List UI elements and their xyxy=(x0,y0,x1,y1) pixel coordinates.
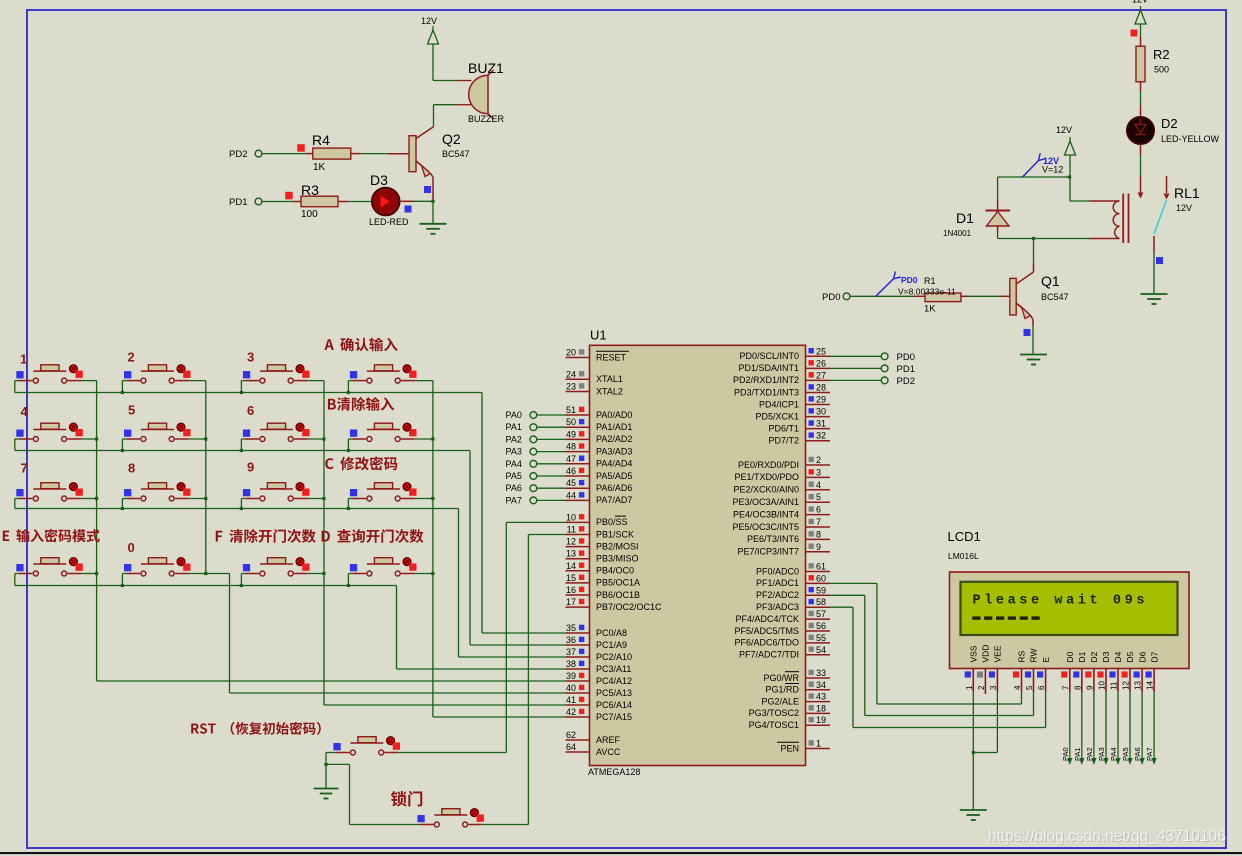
svg-text:R1: R1 xyxy=(924,276,936,286)
svg-text:PF3/ADC3: PF3/ADC3 xyxy=(756,602,799,612)
svg-text:43: 43 xyxy=(816,692,826,702)
svg-text:15: 15 xyxy=(566,573,576,583)
svg-text:PD3/TXD1/INT3: PD3/TXD1/INT3 xyxy=(734,387,799,397)
svg-text:RS: RS xyxy=(1017,650,1027,662)
svg-text:PD1: PD1 xyxy=(897,364,915,375)
svg-text:PA0: PA0 xyxy=(506,410,522,420)
svg-text:27: 27 xyxy=(816,370,826,380)
svg-text:PA5: PA5 xyxy=(1121,747,1130,761)
svg-text:12V: 12V xyxy=(1056,125,1072,135)
svg-text:PA7: PA7 xyxy=(1145,747,1154,761)
svg-text:11: 11 xyxy=(567,525,576,535)
svg-text:19: 19 xyxy=(816,715,826,725)
svg-text:14: 14 xyxy=(566,561,576,571)
svg-text:23: 23 xyxy=(566,382,576,392)
svg-text:PE0/RXD0/PDI: PE0/RXD0/PDI xyxy=(738,460,799,470)
svg-text:500: 500 xyxy=(1154,65,1169,75)
svg-text:PD6/T1: PD6/T1 xyxy=(768,423,799,433)
svg-text:100: 100 xyxy=(301,209,318,220)
svg-text:PD0: PD0 xyxy=(897,352,915,363)
svg-text:PD7/T2: PD7/T2 xyxy=(768,436,799,446)
svg-text:PA1/AD1: PA1/AD1 xyxy=(596,422,632,432)
svg-text:12V: 12V xyxy=(421,16,437,26)
svg-text:PA0/AD0: PA0/AD0 xyxy=(596,410,632,420)
svg-text:https://blog.csdn.net/qq_43710: https://blog.csdn.net/qq_43710106 xyxy=(988,828,1226,845)
svg-text:14: 14 xyxy=(1146,681,1155,690)
svg-text:LCD1: LCD1 xyxy=(948,529,981,544)
svg-text:PC5/A13: PC5/A13 xyxy=(596,688,632,698)
svg-text:6: 6 xyxy=(247,403,254,418)
svg-text:4: 4 xyxy=(816,480,821,490)
svg-text:12: 12 xyxy=(566,537,576,547)
svg-text:PF4/ADC4/TCK: PF4/ADC4/TCK xyxy=(735,614,799,624)
svg-text:42: 42 xyxy=(566,707,576,717)
svg-text:34: 34 xyxy=(816,680,826,690)
svg-text:PA3: PA3 xyxy=(506,447,522,457)
svg-text:PE2/XCK0/AIN0: PE2/XCK0/AIN0 xyxy=(733,485,799,495)
svg-text:XTAL1: XTAL1 xyxy=(596,374,623,384)
svg-text:PEN: PEN xyxy=(780,743,799,753)
svg-text:PE6/T3/INT6: PE6/T3/INT6 xyxy=(747,534,799,544)
svg-text:R4: R4 xyxy=(312,132,330,148)
svg-text:59: 59 xyxy=(816,585,826,595)
svg-text:PD2: PD2 xyxy=(229,149,247,160)
svg-text:U1: U1 xyxy=(590,328,607,343)
svg-text:8: 8 xyxy=(128,461,135,476)
svg-text:PF1/ADC1: PF1/ADC1 xyxy=(756,578,799,588)
svg-text:PB2/MOSI: PB2/MOSI xyxy=(596,541,639,551)
svg-text:3: 3 xyxy=(247,350,254,365)
svg-text:D3: D3 xyxy=(1101,651,1111,662)
svg-text:PG3/TOSC2: PG3/TOSC2 xyxy=(749,708,799,718)
svg-text:BUZ1: BUZ1 xyxy=(468,60,504,76)
svg-text:PC2/A10: PC2/A10 xyxy=(596,652,632,662)
svg-text:PD0/SCL/INT0: PD0/SCL/INT0 xyxy=(739,351,799,361)
svg-text:24: 24 xyxy=(566,369,576,379)
svg-text:PE3/OC3A/AIN1: PE3/OC3A/AIN1 xyxy=(732,497,799,507)
svg-text:PG0/WR: PG0/WR xyxy=(763,673,799,683)
svg-text:33: 33 xyxy=(816,668,826,678)
svg-text:PD1: PD1 xyxy=(229,197,247,208)
svg-text:D3: D3 xyxy=(370,172,388,188)
svg-text:13: 13 xyxy=(566,549,576,559)
svg-text:49: 49 xyxy=(566,429,576,439)
svg-text:7: 7 xyxy=(816,517,821,527)
svg-text:1K: 1K xyxy=(924,304,936,315)
svg-text:60: 60 xyxy=(816,573,826,583)
svg-text:PE1/TXD0/PDO: PE1/TXD0/PDO xyxy=(734,472,799,482)
svg-text:PC1/A9: PC1/A9 xyxy=(596,640,627,650)
svg-text:D5: D5 xyxy=(1125,651,1135,662)
svg-text:PA5: PA5 xyxy=(506,471,522,481)
svg-text:16: 16 xyxy=(566,585,576,595)
svg-text:RESET: RESET xyxy=(596,352,627,362)
svg-text:0: 0 xyxy=(128,540,135,555)
svg-text:PA2/AD2: PA2/AD2 xyxy=(596,434,632,444)
svg-text:25: 25 xyxy=(816,346,826,356)
svg-text:51: 51 xyxy=(566,405,576,415)
svg-text:D0: D0 xyxy=(1065,651,1075,662)
svg-text:AVCC: AVCC xyxy=(596,747,621,757)
svg-text:D4: D4 xyxy=(1113,651,1123,662)
svg-text:R2: R2 xyxy=(1153,47,1170,62)
svg-text:D6: D6 xyxy=(1137,651,1147,662)
svg-text:3: 3 xyxy=(989,685,998,690)
svg-text:55: 55 xyxy=(816,633,826,643)
svg-text:28: 28 xyxy=(816,383,826,393)
svg-text:PB5/OC1A: PB5/OC1A xyxy=(596,578,640,588)
svg-text:5: 5 xyxy=(816,492,821,502)
svg-text:9: 9 xyxy=(1085,685,1094,690)
svg-text:PA6: PA6 xyxy=(1133,747,1142,761)
svg-text:LED-RED: LED-RED xyxy=(369,217,409,227)
svg-text:PB7/OC2/OC1C: PB7/OC2/OC1C xyxy=(596,602,662,612)
svg-text:PA2: PA2 xyxy=(1085,747,1094,761)
svg-text:13: 13 xyxy=(1134,681,1143,690)
svg-text:PA4: PA4 xyxy=(506,459,522,469)
svg-text:R3: R3 xyxy=(301,182,319,198)
svg-text:50: 50 xyxy=(566,417,576,427)
svg-text:PA1: PA1 xyxy=(1073,747,1082,761)
svg-text:PE7/ICP3/INT7: PE7/ICP3/INT7 xyxy=(737,547,799,557)
svg-text:PG1/RD: PG1/RD xyxy=(765,685,799,695)
svg-text:PD4/ICP1: PD4/ICP1 xyxy=(759,399,799,409)
svg-text:PE4/OC3B/INT4: PE4/OC3B/INT4 xyxy=(733,509,799,519)
svg-text:D2: D2 xyxy=(1089,651,1099,662)
svg-text:8: 8 xyxy=(1073,685,1082,690)
svg-text:PD1/SDA/INT1: PD1/SDA/INT1 xyxy=(738,363,799,373)
svg-text:PA4/AD4: PA4/AD4 xyxy=(596,459,632,469)
svg-text:PF5/ADC5/TMS: PF5/ADC5/TMS xyxy=(734,626,799,636)
svg-text:10: 10 xyxy=(566,512,576,522)
svg-text:D1: D1 xyxy=(1077,651,1087,662)
svg-text:PA7: PA7 xyxy=(506,495,522,505)
svg-text:5: 5 xyxy=(128,403,135,418)
svg-text:57: 57 xyxy=(816,609,826,619)
svg-text:D7: D7 xyxy=(1149,651,1159,662)
svg-text:7: 7 xyxy=(21,461,28,476)
svg-text:VDD: VDD xyxy=(981,645,991,663)
svg-text:36: 36 xyxy=(566,635,576,645)
svg-text:PB1/SCK: PB1/SCK xyxy=(596,529,634,539)
svg-text:48: 48 xyxy=(566,442,576,452)
svg-text:1: 1 xyxy=(965,685,974,690)
svg-text:56: 56 xyxy=(816,621,826,631)
svg-text:41: 41 xyxy=(566,695,576,705)
svg-text:V=8.00333e-11: V=8.00333e-11 xyxy=(898,287,956,297)
svg-text:2: 2 xyxy=(816,455,821,465)
svg-text:38: 38 xyxy=(566,659,576,669)
svg-text:BUZZER: BUZZER xyxy=(468,114,505,124)
svg-text:PA0: PA0 xyxy=(1061,747,1070,761)
svg-text:Q2: Q2 xyxy=(442,131,461,147)
svg-text:17: 17 xyxy=(566,597,576,607)
svg-text:ATMEGA128: ATMEGA128 xyxy=(588,767,640,777)
svg-text:E: E xyxy=(1041,657,1051,663)
svg-text:Q1: Q1 xyxy=(1041,273,1060,289)
svg-text:18: 18 xyxy=(816,703,826,713)
svg-text:PA1: PA1 xyxy=(506,422,522,432)
svg-text:PF6/ADC6/TDO: PF6/ADC6/TDO xyxy=(734,638,799,648)
svg-text:PD2: PD2 xyxy=(897,376,915,387)
svg-text:1K: 1K xyxy=(313,162,326,173)
svg-text:39: 39 xyxy=(566,671,576,681)
svg-text:6: 6 xyxy=(1037,685,1046,690)
svg-text:PC3/A11: PC3/A11 xyxy=(596,664,631,674)
svg-text:29: 29 xyxy=(816,395,826,405)
svg-text:D1: D1 xyxy=(956,210,974,226)
svg-text:D2: D2 xyxy=(1161,116,1178,131)
svg-text:30: 30 xyxy=(816,407,826,417)
svg-text:PB3/MISO: PB3/MISO xyxy=(596,554,639,564)
svg-text:RL1: RL1 xyxy=(1174,185,1200,201)
svg-text:9: 9 xyxy=(816,542,821,552)
svg-text:64: 64 xyxy=(566,742,576,752)
svg-text:61: 61 xyxy=(816,562,826,572)
svg-text:PC6/A14: PC6/A14 xyxy=(596,700,632,710)
svg-text:LED-YELLOW: LED-YELLOW xyxy=(1161,134,1220,144)
svg-text:4: 4 xyxy=(1013,685,1022,690)
svg-text:1: 1 xyxy=(20,352,27,367)
svg-text:PD0: PD0 xyxy=(901,275,918,285)
svg-text:PA6: PA6 xyxy=(506,483,522,493)
svg-text:9: 9 xyxy=(247,460,254,475)
svg-text:PA3: PA3 xyxy=(1097,747,1106,761)
svg-text:AREF: AREF xyxy=(596,735,621,745)
svg-text:V=12: V=12 xyxy=(1042,165,1063,175)
svg-text:58: 58 xyxy=(816,597,826,607)
svg-text:62: 62 xyxy=(566,730,576,740)
svg-text:40: 40 xyxy=(566,683,576,693)
svg-text:1: 1 xyxy=(816,739,821,749)
svg-text:45: 45 xyxy=(566,478,576,488)
svg-text:PA4: PA4 xyxy=(1109,747,1118,761)
svg-text:PF2/ADC2: PF2/ADC2 xyxy=(756,590,799,600)
svg-text:10: 10 xyxy=(1098,681,1107,690)
svg-text:2: 2 xyxy=(128,350,135,365)
svg-text:PA6/AD6: PA6/AD6 xyxy=(596,483,632,493)
svg-text:PB4/OC0: PB4/OC0 xyxy=(596,566,634,576)
svg-text:7: 7 xyxy=(1061,685,1070,690)
svg-text:12: 12 xyxy=(1122,681,1131,690)
svg-text:PD0: PD0 xyxy=(822,292,840,303)
svg-text:PF0/ADC0: PF0/ADC0 xyxy=(756,566,799,576)
svg-text:RW: RW xyxy=(1029,648,1039,662)
svg-text:VEE: VEE xyxy=(993,645,1003,662)
svg-text:VSS: VSS xyxy=(969,645,979,662)
svg-text:12V: 12V xyxy=(1176,203,1192,213)
svg-text:PE5/OC3C/INT5: PE5/OC3C/INT5 xyxy=(732,522,799,532)
svg-text:32: 32 xyxy=(816,431,826,441)
svg-text:47: 47 xyxy=(566,454,576,464)
svg-text:26: 26 xyxy=(816,358,826,368)
svg-text:PB0/SS: PB0/SS xyxy=(596,517,628,527)
svg-text:BC547: BC547 xyxy=(442,149,470,159)
svg-text:5: 5 xyxy=(1025,685,1034,690)
svg-text:PB6/OC1B: PB6/OC1B xyxy=(596,590,640,600)
svg-text:3: 3 xyxy=(816,467,821,477)
svg-text:12V: 12V xyxy=(1132,0,1148,5)
svg-text:35: 35 xyxy=(566,623,576,633)
svg-text:4: 4 xyxy=(21,404,29,419)
svg-text:44: 44 xyxy=(566,490,576,500)
svg-text:PA7/AD7: PA7/AD7 xyxy=(596,495,632,505)
svg-text:PG2/ALE: PG2/ALE xyxy=(761,696,799,706)
svg-text:PC0/A8: PC0/A8 xyxy=(596,628,627,638)
svg-text:1N4001: 1N4001 xyxy=(943,229,972,238)
svg-text:BC547: BC547 xyxy=(1041,292,1069,302)
svg-text:PA5/AD5: PA5/AD5 xyxy=(596,471,632,481)
svg-text:11: 11 xyxy=(1110,681,1119,690)
svg-text:XTAL2: XTAL2 xyxy=(596,386,623,396)
svg-text:8: 8 xyxy=(816,529,821,539)
svg-text:6: 6 xyxy=(816,505,821,515)
svg-text:PC4/A12: PC4/A12 xyxy=(596,676,632,686)
svg-text:54: 54 xyxy=(816,645,826,655)
svg-text:PD5/XCK1: PD5/XCK1 xyxy=(755,411,799,421)
svg-text:2: 2 xyxy=(977,685,986,690)
svg-text:LM016L: LM016L xyxy=(948,551,979,561)
svg-text:PC7/A15: PC7/A15 xyxy=(596,712,632,722)
svg-text:PA3/AD3: PA3/AD3 xyxy=(596,446,632,456)
svg-text:PG4/TOSC1: PG4/TOSC1 xyxy=(749,720,799,730)
svg-text:37: 37 xyxy=(566,647,576,657)
svg-text:31: 31 xyxy=(816,419,826,429)
svg-text:46: 46 xyxy=(566,466,576,476)
svg-text:Please wait 09s: Please wait 09s xyxy=(973,594,1149,609)
svg-text:PA2: PA2 xyxy=(506,434,522,444)
svg-text:PD2/RXD1/INT2: PD2/RXD1/INT2 xyxy=(733,375,799,385)
svg-text:20: 20 xyxy=(566,348,576,358)
svg-text:PF7/ADC7/TDI: PF7/ADC7/TDI xyxy=(739,650,799,660)
